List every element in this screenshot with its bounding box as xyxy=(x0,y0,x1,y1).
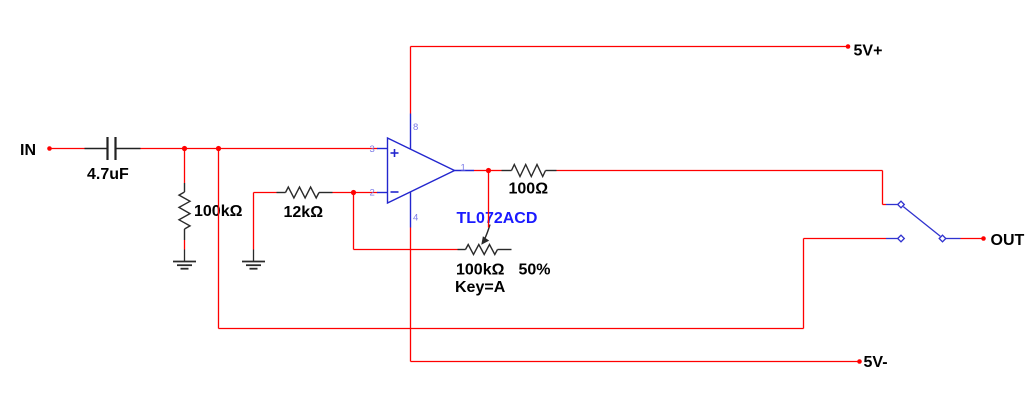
junction C xyxy=(351,190,356,195)
resistor R3 100Ω xyxy=(502,165,557,177)
wire 5V+ rail horizontal xyxy=(411,46,849,48)
wire R2 to junction C xyxy=(333,192,354,194)
ground GND1 xyxy=(173,250,196,269)
wire pin 4 down to 5V- rail xyxy=(410,228,412,362)
wire junction A to junction B xyxy=(185,148,219,150)
svg-text:1: 1 xyxy=(461,163,466,174)
svg-text:100Ω: 100Ω xyxy=(509,181,549,198)
wire GND2 to R2 xyxy=(254,192,277,194)
terminal dot 5V- xyxy=(857,359,862,364)
junction B xyxy=(216,146,221,151)
wire junction C to op-amp pin 2 xyxy=(354,192,378,194)
capacitor C1 xyxy=(85,137,141,160)
wire feedback junction B down xyxy=(218,149,220,329)
wire 5V+ rail vertical xyxy=(410,47,412,114)
svg-text:5V+: 5V+ xyxy=(854,43,883,60)
svg-text:50%: 50% xyxy=(519,262,551,279)
wire IN to C1 xyxy=(50,148,85,150)
ground GND2 xyxy=(242,250,265,269)
svg-text:100kΩ: 100kΩ xyxy=(456,262,505,279)
svg-text:12kΩ: 12kΩ xyxy=(284,204,324,221)
wire junction A down to R1 xyxy=(184,149,186,184)
wire feedback to switch throw B xyxy=(804,238,887,240)
op-amp U1 xyxy=(377,114,474,228)
wire junction D down to pot wiper xyxy=(488,171,490,228)
junction D xyxy=(486,168,491,173)
wire feedback right vertical xyxy=(803,239,805,329)
switch S1 xyxy=(886,201,961,242)
svg-text:3: 3 xyxy=(370,144,375,155)
wire junction B to op-amp pin 3 xyxy=(219,148,378,150)
resistor R2 12kΩ xyxy=(277,187,333,198)
svg-text:8: 8 xyxy=(413,122,418,133)
svg-text:4.7uF: 4.7uF xyxy=(87,166,129,183)
wire feedback bottom run xyxy=(219,328,804,330)
wire 5V- rail horizontal xyxy=(411,361,860,363)
resistor R1 100kΩ xyxy=(179,183,190,240)
wire GND2 up to 12k row xyxy=(253,193,255,250)
terminal dot 5V+ xyxy=(846,44,851,49)
wire down to switch throw A xyxy=(882,171,884,205)
svg-text:5V-: 5V- xyxy=(864,354,888,371)
svg-text:4: 4 xyxy=(413,213,418,224)
svg-text:Key=A: Key=A xyxy=(455,279,506,296)
wire switch to OUT xyxy=(961,238,984,240)
terminal dot IN xyxy=(47,146,52,151)
svg-text:OUT: OUT xyxy=(991,232,1025,249)
junction A xyxy=(182,146,187,151)
wire C1 to junction A xyxy=(141,148,185,150)
svg-text:IN: IN xyxy=(20,142,36,159)
svg-text:TL072ACD: TL072ACD xyxy=(457,210,538,227)
wire junction C down xyxy=(353,193,355,250)
potentiometer R4 xyxy=(458,225,512,255)
wire R1 to GND1 xyxy=(184,240,186,250)
wire stub to throw A xyxy=(883,204,887,206)
svg-text:2: 2 xyxy=(370,188,375,199)
terminal dot OUT xyxy=(981,236,986,241)
wire op-amp output to junction D xyxy=(474,170,489,172)
wire junction C run to pot R4 xyxy=(354,249,458,251)
wire R3 to switch run xyxy=(557,170,883,172)
wire junction D to R3 xyxy=(489,170,502,172)
